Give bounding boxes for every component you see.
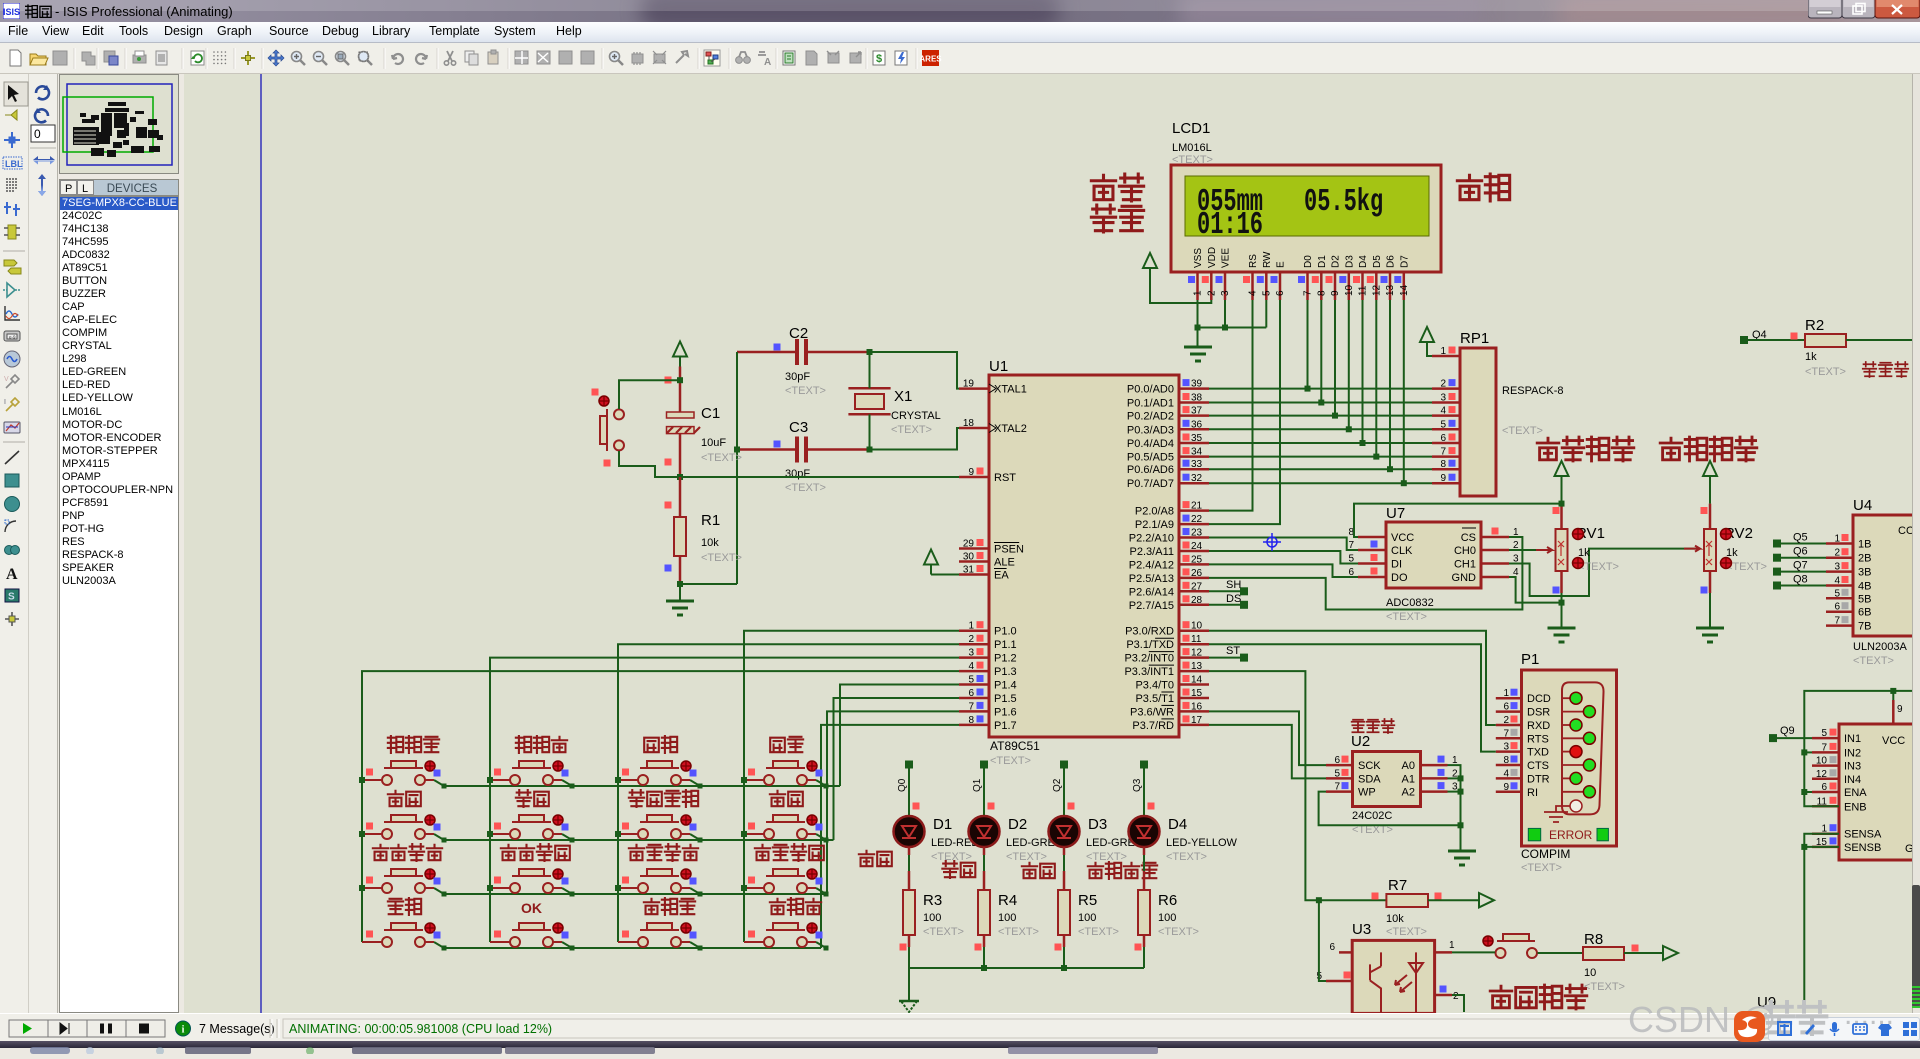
- U1 pin 13 P3.3/INT1: [1179, 670, 1209, 673]
- button key K43: [618, 898, 697, 947]
- svg-text:D4: D4: [1358, 255, 1369, 268]
- svg-text:C1: C1: [701, 405, 720, 422]
- svg-text:DI: DI: [1391, 559, 1402, 571]
- svg-text:32: 32: [1191, 473, 1203, 484]
- wire net Q5 to U4: [1777, 543, 1826, 545]
- P1 pin 4 DTR: [1496, 777, 1522, 780]
- svg-text:9: 9: [1503, 782, 1509, 793]
- button key K23: [618, 790, 698, 839]
- svg-text:6: 6: [1440, 433, 1446, 444]
- wire P1.7 to key row 4: [821, 725, 959, 948]
- U1 pin 3 P1.2: [959, 656, 989, 659]
- svg-text:8: 8: [968, 715, 974, 726]
- svg-text:7 Message(s): 7 Message(s): [199, 1022, 275, 1036]
- power VDD arrow for LCD pin2: [1143, 253, 1157, 268]
- svg-text:R1: R1: [701, 512, 720, 529]
- U1 pin 35 P0.4/AD4: [1179, 442, 1209, 445]
- label led D1: [859, 851, 874, 866]
- wire U7 GND to ground node: [1509, 577, 1562, 603]
- L298 pin 1 SENSA: [1812, 832, 1839, 835]
- resistor R2 1k: [1805, 317, 1846, 378]
- svg-text:1B: 1B: [1858, 539, 1871, 551]
- svg-text:P2.7/A15: P2.7/A15: [1129, 600, 1174, 612]
- svg-text:PSEN: PSEN: [994, 544, 1024, 556]
- net Q9 to IN1: [1773, 737, 1812, 739]
- svg-text:<TEXT>: <TEXT>: [1386, 611, 1427, 623]
- svg-text:P3.3/INT1: P3.3/INT1: [1124, 666, 1174, 678]
- svg-text:28: 28: [1191, 595, 1203, 606]
- wire P0.1 row: [1209, 402, 1432, 404]
- wire key row 1 bus: [444, 785, 840, 787]
- svg-text:U4: U4: [1853, 497, 1872, 514]
- svg-text:R4: R4: [998, 892, 1017, 909]
- svg-text:P1.3: P1.3: [994, 666, 1017, 678]
- svg-text:D3: D3: [1344, 255, 1355, 268]
- svg-text:VEE: VEE: [1221, 248, 1232, 268]
- wire opto net down to U3 pin5: [1319, 900, 1326, 981]
- label weight (lcd): [1457, 175, 1481, 199]
- svg-text:P2.2/A10: P2.2/A10: [1129, 533, 1174, 545]
- svg-text:5: 5: [1334, 768, 1340, 779]
- svg-text:14: 14: [1399, 284, 1410, 296]
- wire key K21 out: [434, 834, 444, 840]
- svg-text:7: 7: [1334, 782, 1340, 793]
- svg-text:4: 4: [968, 661, 974, 672]
- svg-text:DS: DS: [1226, 593, 1241, 605]
- label water level detect: [1537, 438, 1559, 460]
- potentiometer RV2 1k: [1684, 504, 1767, 594]
- U7 pin 7 CLK: [1358, 549, 1386, 552]
- svg-text:Q7: Q7: [1793, 560, 1808, 572]
- svg-text:Q0: Q0: [897, 778, 908, 792]
- wire P0.6 row: [1209, 468, 1432, 470]
- svg-text:IN1: IN1: [1844, 733, 1861, 745]
- svg-text:26: 26: [1191, 568, 1203, 579]
- led D4 LED-YELLOW: [1129, 816, 1238, 863]
- button key K31: [362, 844, 442, 893]
- svg-text:P3.1/TXD: P3.1/TXD: [1126, 639, 1174, 651]
- wire key K41 out: [434, 942, 444, 948]
- resistor pack RP1 RESPACK-8: [1432, 330, 1564, 496]
- button key K12: [490, 736, 569, 785]
- svg-text:P0.3/AD3: P0.3/AD3: [1127, 424, 1174, 436]
- svg-text:9: 9: [1440, 473, 1446, 484]
- led D2 LED-GREEN: [969, 816, 1071, 863]
- wire LCD E to U1 P2.1: [1209, 300, 1280, 524]
- svg-text:- ISIS Professional (Animating: - ISIS Professional (Animating): [55, 4, 233, 19]
- svg-text:D7: D7: [1399, 255, 1410, 268]
- svg-text:4B: 4B: [1858, 581, 1871, 593]
- svg-text:RST: RST: [994, 472, 1016, 484]
- wire Q4 to R2: [1748, 339, 1805, 341]
- ground below RV2: [1696, 627, 1724, 630]
- label led D4: [1088, 863, 1103, 878]
- wire R8 to arrow terminal: [1624, 952, 1663, 954]
- wire R2 right: [1846, 339, 1912, 341]
- svg-text:30pF: 30pF: [785, 468, 810, 480]
- svg-text:5: 5: [1834, 588, 1840, 599]
- svg-text:DO: DO: [1391, 572, 1408, 584]
- U1 pin 24 P2.3/A11: [1179, 550, 1209, 553]
- wire U2 A0-A2 to ground and WP: [1448, 765, 1461, 851]
- svg-text:A: A: [6, 566, 18, 583]
- svg-text:1: 1: [968, 621, 974, 632]
- svg-text:A1: A1: [1402, 773, 1415, 785]
- ground below R1: [666, 600, 694, 603]
- wire key K33 out: [690, 888, 700, 894]
- U1 pin 31 EA: [959, 573, 989, 576]
- resistor R7 10k: [1316, 877, 1442, 938]
- cursor crosshair: [1263, 533, 1281, 551]
- wire P0.3 row: [1209, 428, 1432, 430]
- U1 pin 12 P3.2/INT0: [1179, 656, 1209, 659]
- adc U7 ADC0832: [1348, 505, 1519, 623]
- wire R3 to rail: [908, 947, 910, 968]
- svg-text:D0: D0: [1303, 255, 1314, 268]
- svg-text:P2.6/A14: P2.6/A14: [1129, 586, 1174, 598]
- wire reset button bottom to RST: [619, 451, 680, 477]
- svg-text:2: 2: [1206, 290, 1217, 296]
- wire D3: [1348, 300, 1350, 429]
- L298 pin 10 IN3: [1812, 764, 1839, 767]
- svg-text:RW: RW: [1262, 251, 1273, 268]
- svg-text:34: 34: [1191, 447, 1203, 458]
- net Q3 wire: [1140, 761, 1148, 769]
- svg-text:P3.0/RXD: P3.0/RXD: [1125, 626, 1174, 638]
- L298 pin 15 SENSB: [1812, 846, 1839, 849]
- U1 pin 5 P1.4: [959, 683, 989, 686]
- wire VDD to LCD pin 2: [1150, 278, 1211, 303]
- svg-text:U7: U7: [1386, 505, 1405, 522]
- svg-text:1: 1: [1193, 290, 1204, 296]
- svg-text:LCD1: LCD1: [1172, 120, 1210, 137]
- svg-text:IN3: IN3: [1844, 761, 1861, 773]
- U1 pin 27 P2.6/A14: [1179, 590, 1209, 593]
- svg-text:100: 100: [998, 912, 1016, 924]
- svg-text:E: E: [1276, 261, 1287, 268]
- svg-text:<TEXT>: <TEXT>: [1584, 981, 1625, 993]
- button key K32: [490, 844, 570, 893]
- svg-text:10: 10: [1191, 621, 1203, 632]
- U1 pin 6 P1.5: [959, 697, 989, 700]
- net Q4 terminal: [1740, 336, 1748, 344]
- L298 pin 6 ENA: [1812, 791, 1839, 794]
- svg-text:<TEXT>: <TEXT>: [1521, 862, 1562, 874]
- svg-text:7: 7: [1303, 290, 1314, 296]
- button key K21: [362, 791, 441, 839]
- P1 pin 7 RTS: [1496, 737, 1522, 740]
- svg-text:P2.1/A9: P2.1/A9: [1135, 519, 1174, 531]
- U1 pin 39 P0.0/AD0: [1179, 387, 1209, 390]
- U7 pin 1 CS: [1481, 536, 1509, 539]
- U1 pin 9 RST: [959, 476, 989, 479]
- svg-text:IN2: IN2: [1844, 747, 1861, 759]
- svg-text:10: 10: [1816, 756, 1828, 767]
- RP1 pin 5: [1432, 428, 1460, 431]
- button key OK: [490, 900, 569, 947]
- P1 pin 3 TXD: [1496, 750, 1522, 753]
- U1 pin 26 P2.5/A13: [1179, 577, 1209, 580]
- resistor R3 100: [900, 890, 964, 951]
- svg-text:R5: R5: [1078, 892, 1097, 909]
- wire P1.0 column 4: [744, 631, 959, 942]
- net ST stub: [1209, 657, 1244, 659]
- sheet border: [260, 74, 262, 1013]
- P1 ERROR leds: [1528, 828, 1540, 840]
- P1 pin 9 RI: [1496, 791, 1522, 794]
- P1 pin 2 RXD: [1496, 724, 1522, 727]
- U4 pin 4 4B: [1826, 584, 1853, 587]
- svg-text:3: 3: [1834, 562, 1840, 573]
- svg-text:11: 11: [1358, 285, 1369, 296]
- svg-text:i: i: [182, 1025, 185, 1036]
- svg-text:RP1: RP1: [1460, 330, 1489, 347]
- U4 pin 1 1B: [1826, 542, 1853, 545]
- svg-text:DSR: DSR: [1527, 707, 1550, 719]
- svg-text:ALE: ALE: [994, 557, 1015, 569]
- U1 pin 14 P3.4/T0: [1179, 683, 1209, 686]
- wire RST row: [680, 476, 959, 478]
- svg-text:05.5kg: 05.5kg: [1304, 184, 1383, 220]
- label buzzer: [1863, 362, 1877, 377]
- svg-text:SH: SH: [1226, 579, 1241, 591]
- svg-text:A2: A2: [1402, 787, 1415, 799]
- wire EA to power: [931, 574, 959, 576]
- svg-text:U1: U1: [989, 358, 1008, 375]
- svg-text:7: 7: [1440, 447, 1446, 458]
- U1 pin 16 P3.6/WR: [1179, 710, 1209, 713]
- svg-text:17: 17: [1191, 715, 1203, 726]
- svg-text:<TEXT>: <TEXT>: [1502, 425, 1543, 437]
- U1 pin 18 XTAL2: [959, 427, 989, 430]
- power arrow RP1 pin1: [1420, 327, 1434, 342]
- svg-text:P0.4/AD4: P0.4/AD4: [1127, 438, 1174, 450]
- svg-text:22: 22: [1191, 514, 1203, 525]
- P1 DB9 contact DSR: [1562, 711, 1585, 713]
- svg-text:5: 5: [968, 675, 974, 686]
- wire R4 to rail: [983, 947, 985, 968]
- ground below RV1: [1548, 627, 1576, 630]
- wire P0.2 row: [1209, 415, 1432, 417]
- U2 pin 1 A0: [1421, 764, 1448, 767]
- label weight detect: [1660, 438, 1682, 460]
- resistor R8 10: [1583, 931, 1639, 993]
- wire P1.2 column 2: [490, 658, 959, 942]
- svg-text:R3: R3: [923, 892, 942, 909]
- svg-text:P2.0/A8: P2.0/A8: [1135, 506, 1174, 518]
- button key K24: [744, 791, 823, 839]
- U1 pin 4 P1.3: [959, 670, 989, 673]
- svg-text:R7: R7: [1388, 877, 1407, 894]
- svg-text:6: 6: [1334, 755, 1340, 766]
- U4 pin 5 5B: [1826, 597, 1853, 600]
- wire key K31 out: [434, 888, 444, 894]
- button key K41: [362, 898, 441, 947]
- U4 pin 6 6B: [1826, 610, 1853, 613]
- svg-text:<TEXT>: <TEXT>: [1853, 655, 1894, 667]
- svg-text:$: $: [876, 53, 882, 65]
- svg-text:6: 6: [1329, 942, 1335, 953]
- wire key K44 out: [816, 942, 826, 948]
- svg-text:P3.7/RD: P3.7/RD: [1132, 720, 1174, 732]
- wire R5 to rail: [1063, 947, 1065, 968]
- U7 pin 8 VCC: [1358, 536, 1386, 539]
- svg-text:VDD: VDD: [1207, 247, 1218, 268]
- P1 DB9 contact RXD: [1562, 724, 1571, 726]
- svg-text:6: 6: [968, 688, 974, 699]
- svg-text:4: 4: [1440, 406, 1446, 417]
- svg-text:ERROR: ERROR: [1549, 828, 1593, 842]
- svg-text:SENSA: SENSA: [1844, 829, 1882, 841]
- P1 DB9 contact TXD: [1562, 751, 1571, 753]
- svg-text:9: 9: [1330, 290, 1341, 296]
- U1 pin 33 P0.6/AD6: [1179, 468, 1209, 471]
- svg-text:16: 16: [1191, 701, 1203, 712]
- svg-text:SDA: SDA: [1358, 773, 1381, 785]
- svg-text:I: I: [4, 399, 6, 406]
- label led D2: [942, 861, 957, 878]
- microcontroller U1 AT89C51: [989, 358, 1179, 767]
- svg-text:14: 14: [1191, 675, 1203, 686]
- svg-text:RESPACK-8: RESPACK-8: [1502, 385, 1564, 397]
- button defecation: [1483, 934, 1537, 958]
- wire U3 pin 2 down: [1452, 995, 1464, 1012]
- U1 pin 11 P3.1/TXD: [1179, 643, 1209, 646]
- U3 pin 2: [1435, 994, 1452, 997]
- svg-text:<TEXT>: <TEXT>: [1386, 926, 1427, 938]
- P1 pin 1 DCD: [1496, 697, 1522, 700]
- wire XTAL1 net: [870, 352, 960, 389]
- U2 pin 2 A1: [1421, 777, 1448, 780]
- svg-text:6: 6: [1503, 702, 1509, 713]
- svg-text:V: V: [4, 376, 9, 383]
- U1 pin 15 P3.5/T1: [1179, 697, 1209, 700]
- net Q1 wire: [980, 761, 988, 769]
- svg-text:21: 21: [1191, 501, 1203, 512]
- wire U1 P3.1 TXD to P1: [1209, 644, 1496, 751]
- svg-text:<TEXT>: <TEXT>: [1086, 851, 1127, 863]
- svg-text:35: 35: [1191, 433, 1203, 444]
- svg-text:D5: D5: [1372, 255, 1383, 268]
- svg-text:10: 10: [1344, 284, 1355, 296]
- svg-text:CTS: CTS: [1527, 760, 1549, 772]
- svg-text:37: 37: [1191, 406, 1203, 417]
- U4 pin 3 3B: [1826, 570, 1853, 573]
- svg-text:8: 8: [1440, 459, 1446, 470]
- U1 pin 34 P0.5/AD5: [1179, 455, 1209, 458]
- power arrow above RV1: [1555, 461, 1569, 476]
- U1 pin 19 XTAL1: [959, 387, 989, 390]
- wire P0.7 row: [1209, 482, 1432, 484]
- net Q2 wire: [1060, 761, 1068, 769]
- svg-text:Q6: Q6: [1793, 546, 1808, 558]
- U7 pin 2 CH0: [1481, 549, 1509, 552]
- wire P2.4 to U7 DO: [1209, 564, 1358, 577]
- wire P1.3 column 1: [362, 671, 959, 942]
- wire U1 P3.0 RXD to P1: [1209, 631, 1496, 725]
- wire P1.4 to key row 1: [840, 685, 959, 787]
- wire U3 pin1 to button: [1452, 951, 1495, 953]
- svg-text:<TEXT>: <TEXT>: [785, 482, 826, 494]
- svg-text:2: 2: [968, 634, 974, 645]
- U7 pin 6 DO: [1358, 576, 1386, 579]
- wire led to resistor R6: [1143, 847, 1146, 855]
- svg-text:1k: 1k: [1805, 351, 1817, 363]
- wire P1.1 column 3: [618, 644, 959, 942]
- svg-text:D2: D2: [1008, 816, 1027, 833]
- potentiometer RV1 1k: [1536, 504, 1619, 594]
- svg-text:P3.4/T0: P3.4/T0: [1135, 680, 1174, 692]
- svg-text:3: 3: [968, 648, 974, 659]
- svg-text:D6: D6: [1386, 255, 1397, 268]
- svg-text:Q8: Q8: [1793, 574, 1808, 586]
- svg-text:4: 4: [1248, 290, 1259, 296]
- button reset: [592, 389, 625, 467]
- L298 pin 7 IN2: [1812, 751, 1839, 754]
- svg-text:DTR: DTR: [1527, 773, 1550, 785]
- svg-text:ENB: ENB: [1844, 801, 1867, 813]
- svg-text:13: 13: [1191, 661, 1203, 672]
- svg-text:2: 2: [1834, 548, 1840, 559]
- P1 DB9 contact DCD: [1562, 697, 1571, 699]
- svg-text:4: 4: [1503, 768, 1509, 779]
- wire U1 P3.7 to U2 SDA: [1209, 725, 1326, 779]
- wire D4: [1362, 300, 1364, 443]
- crystal X1: [848, 349, 940, 453]
- svg-text:8: 8: [1503, 755, 1509, 766]
- svg-text:9: 9: [1897, 704, 1903, 715]
- svg-text:CH0: CH0: [1454, 545, 1476, 557]
- svg-text:33: 33: [1191, 459, 1203, 470]
- wire P2.5 to U7 CS (wrap below): [1209, 537, 1522, 610]
- LCD pin stubs 1-14: [1188, 272, 1410, 300]
- wire SENSA/SENSB down: [1804, 834, 1839, 1012]
- wire U1 P3.6 to U2 SCK: [1209, 711, 1326, 765]
- svg-text:CS: CS: [1461, 532, 1476, 544]
- svg-text:01:16: 01:16: [1197, 207, 1263, 243]
- svg-text:P: P: [65, 183, 72, 195]
- svg-text:Q5: Q5: [1793, 532, 1808, 544]
- net DS stub: [1209, 604, 1244, 606]
- svg-text:<TEXT>: <TEXT>: [923, 926, 964, 938]
- RP1 pin 4: [1432, 414, 1460, 417]
- U1 pin 23 P2.2/A10: [1179, 536, 1209, 539]
- svg-text:ST: ST: [1226, 645, 1240, 657]
- wire key row 2 bus: [444, 839, 834, 841]
- wire ENA tap: [1804, 791, 1812, 793]
- svg-text:CO: CO: [1898, 525, 1913, 537]
- label defecation detect: [1490, 986, 1512, 1008]
- svg-text:DCD: DCD: [1527, 693, 1551, 705]
- svg-text:24C02C: 24C02C: [1352, 810, 1392, 822]
- svg-text:U3: U3: [1352, 921, 1371, 938]
- svg-text:<TEXT>: <TEXT>: [931, 851, 972, 863]
- RP1 pin 7: [1432, 455, 1460, 458]
- RP1 pin 8: [1432, 468, 1460, 471]
- svg-text:<TEXT>: <TEXT>: [1006, 851, 1047, 863]
- U2 pin 6 SCK: [1326, 764, 1353, 767]
- U1 pin 29 PSEN: [959, 547, 989, 550]
- svg-text:Q2: Q2: [1052, 778, 1063, 792]
- svg-text:100: 100: [1158, 912, 1176, 924]
- svg-text:10uF: 10uF: [701, 437, 726, 449]
- svg-text:5: 5: [1261, 290, 1272, 296]
- svg-text:RI: RI: [1527, 787, 1538, 799]
- svg-text:P1.4: P1.4: [994, 680, 1017, 692]
- svg-text:12: 12: [1371, 284, 1382, 296]
- svg-text:P2.3/A11: P2.3/A11: [1130, 546, 1174, 558]
- svg-text:2: 2: [1453, 991, 1459, 1002]
